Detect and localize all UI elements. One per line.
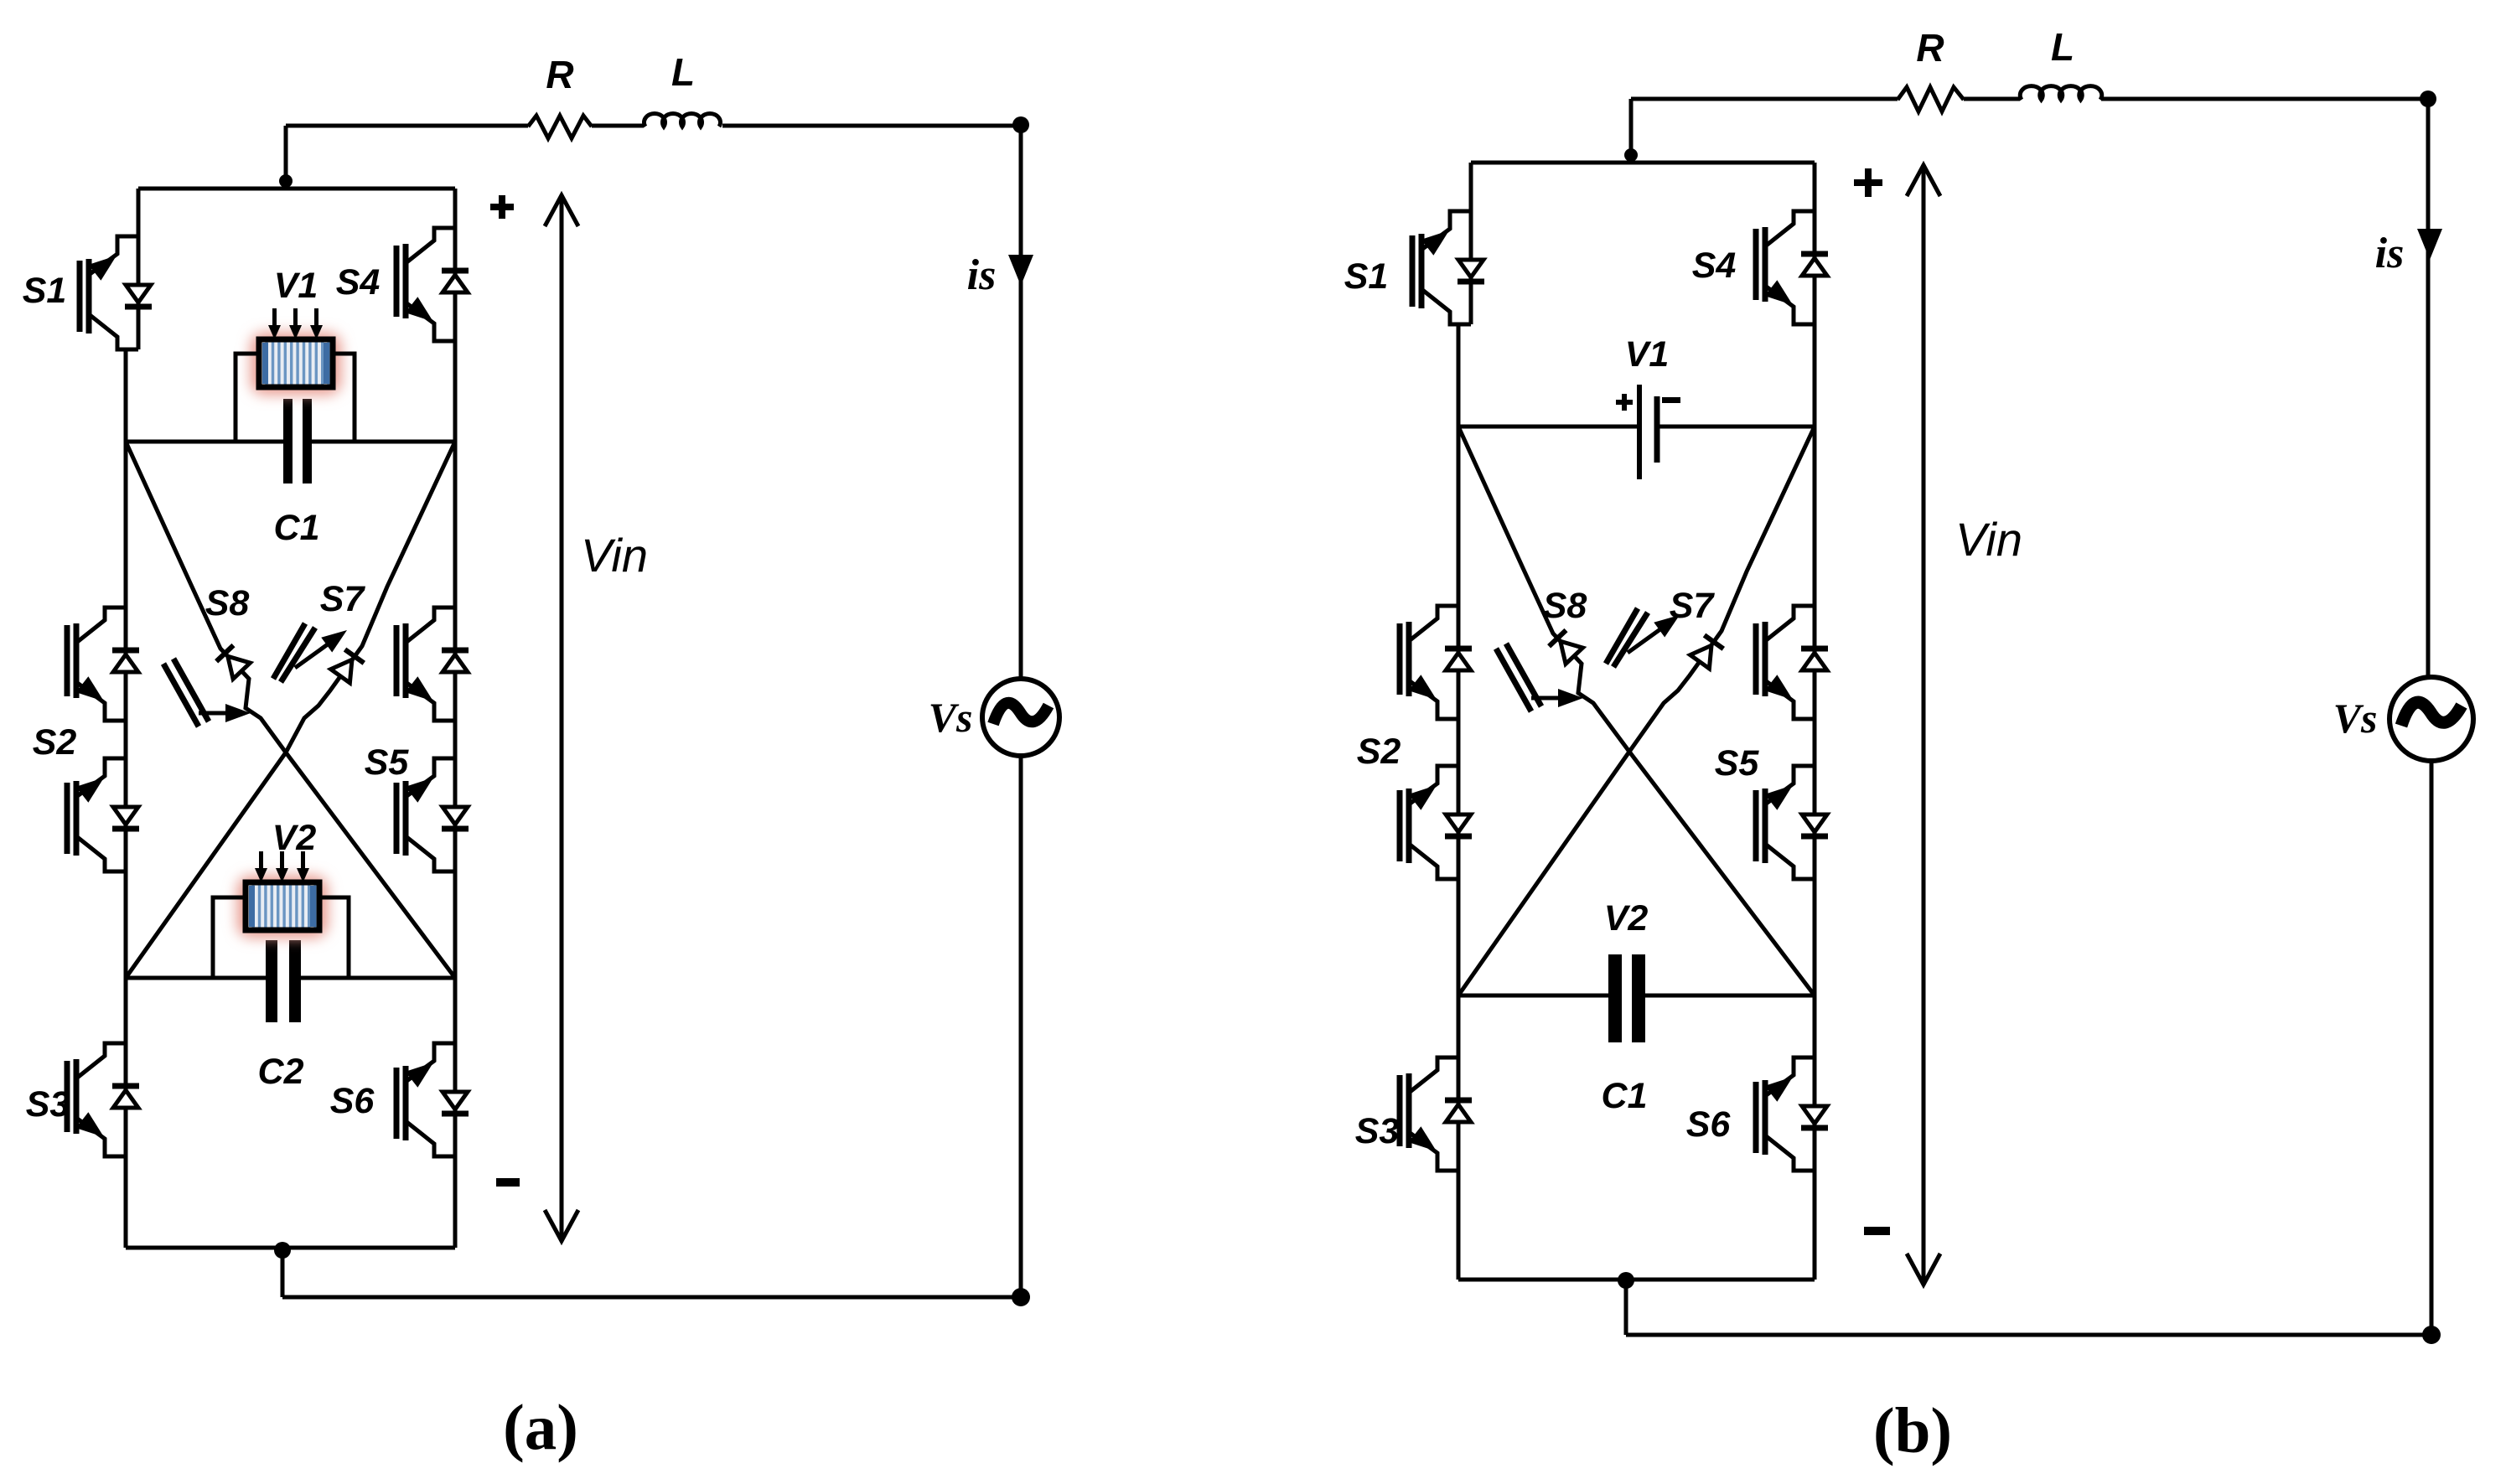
wire: mid rail right of V1 <box>1657 425 1815 429</box>
svg-text:S7: S7 <box>1670 586 1716 626</box>
arrow: Vin measurement <box>560 194 564 1242</box>
transistor S4 <box>1756 211 1828 324</box>
wire: top output wire right segment <box>2101 97 2428 101</box>
wire: left rail above S2 <box>1457 427 1461 606</box>
svg-text:V1: V1 <box>274 266 318 306</box>
wire: right rail above S5 <box>1813 324 1817 606</box>
arrow: load current is <box>2417 229 2442 260</box>
label minus <box>496 1178 520 1187</box>
wire: left rail above S1 <box>1469 163 1473 211</box>
svg-text:S3: S3 <box>1355 1111 1400 1151</box>
capacitor C2 <box>266 940 277 1022</box>
wire: lower mid rail right of C1 <box>1643 994 1815 998</box>
wire: right rail below S5 <box>1813 879 1817 1057</box>
svg-text:S8: S8 <box>1543 586 1587 626</box>
transistor S2 upper <box>1400 606 1472 719</box>
wire: top riser from bridge to output line <box>1629 99 1634 163</box>
svg-text:S3: S3 <box>26 1084 70 1125</box>
wire: top riser from bridge to output line <box>284 126 288 189</box>
wire: bridge bottom rail <box>126 1246 455 1250</box>
node: bottom right corner node <box>2422 1326 2441 1344</box>
svg-text:S4: S4 <box>336 262 381 302</box>
PV source V1 <box>251 308 341 395</box>
transistor S3 <box>1400 1057 1472 1171</box>
wire: bottom return wire <box>1626 1333 2431 1337</box>
svg-text:R: R <box>546 53 573 96</box>
wire: S5 middle link <box>453 721 458 758</box>
svg-text:Vs: Vs <box>2333 695 2378 742</box>
wire: S2 middle link <box>1457 719 1461 766</box>
wire: right rail below S5 <box>453 871 458 1043</box>
svg-text:S7: S7 <box>320 579 366 619</box>
transistor S2 lower <box>67 758 139 871</box>
svg-text:S4: S4 <box>1692 246 1737 286</box>
PV source V2 <box>237 851 328 938</box>
battery V1 <box>1637 385 1642 479</box>
gate of S7 <box>273 623 315 682</box>
transistor S5 upper <box>1756 606 1828 719</box>
wire: right rail above S4 <box>1813 163 1817 211</box>
arrow: S8 gate emitter <box>1531 696 1567 701</box>
inductor L <box>2020 86 2102 100</box>
label battery minus <box>1662 397 1680 403</box>
label plus <box>1854 179 1882 186</box>
svg-text:S2: S2 <box>33 722 77 763</box>
diode of S7 <box>331 649 365 683</box>
wire: mid rail right of C1 <box>312 440 455 444</box>
diode of S8 <box>1549 630 1582 664</box>
wire: S5 middle link <box>1813 719 1817 766</box>
transistor S5 lower <box>1756 766 1828 879</box>
wire: diagonal with S8 <box>126 442 455 978</box>
node: bridge top output node <box>279 174 293 188</box>
svg-text:C1: C1 <box>274 508 320 548</box>
inductor L <box>645 114 721 127</box>
transistor S2 upper <box>67 608 139 721</box>
wire: bottom stub to bridge <box>1624 1280 1628 1335</box>
arrow: load current is <box>1008 255 1033 286</box>
wire: mid rail left of V1 <box>1458 425 1637 429</box>
svg-text:S8: S8 <box>205 583 250 623</box>
wire: between R and L <box>1964 97 2020 101</box>
svg-text:S1: S1 <box>1344 256 1389 297</box>
wire: lower mid rail right of C2 <box>298 976 455 980</box>
transistor S6 <box>396 1043 469 1156</box>
transistor S6 <box>1756 1057 1828 1171</box>
svg-text:S6: S6 <box>330 1081 375 1121</box>
wire: right rail above S6 <box>453 871 458 1043</box>
svg-text:(b): (b) <box>1873 1394 1952 1466</box>
svg-text:V1: V1 <box>1625 334 1670 375</box>
node: top right corner node <box>1012 116 1029 133</box>
arrow: Vin measurement <box>1922 164 1926 1285</box>
svg-text:S1: S1 <box>23 271 67 311</box>
label battery plus <box>1616 400 1633 405</box>
wire: left rail above S2 <box>124 442 128 608</box>
capacitor C1 <box>1608 954 1622 1042</box>
node: bridge top output node <box>1624 148 1638 162</box>
wire: right rail above S4 <box>453 189 458 228</box>
wire: left rail S1 to mid rail <box>124 349 128 442</box>
transistor S5 upper <box>396 608 469 721</box>
transistor S1 <box>80 236 152 349</box>
svg-text:V2: V2 <box>272 818 317 858</box>
resistor R <box>528 116 592 138</box>
wire: left rail below S3 <box>124 1156 128 1248</box>
AC source Vs <box>982 679 1059 756</box>
wire: right rail below S6 <box>1813 1171 1817 1280</box>
wire: V1 bracket <box>236 354 355 442</box>
transistor S1 <box>1412 211 1484 324</box>
svg-text:is: is <box>2375 230 2405 277</box>
arrow: S7 gate emitter <box>295 638 337 668</box>
transistor S4 <box>396 228 469 341</box>
arrow: S8 gate emitter <box>199 711 235 716</box>
svg-text:(a): (a) <box>503 1391 578 1463</box>
wire: top output wire left segment <box>1631 97 1898 101</box>
wire: left rail above S1 <box>137 189 141 236</box>
wire: bottom return wire <box>282 1295 1021 1300</box>
svg-text:R: R <box>1916 26 1944 70</box>
wire: between R and L <box>592 124 644 128</box>
wire: right rail below S6 <box>453 1156 458 1248</box>
wire: diagonal with S8 <box>1458 427 1815 995</box>
wire: bridge top rail <box>1471 161 1815 165</box>
wire: left rail below S3 <box>1457 1171 1461 1280</box>
label plus <box>490 204 514 210</box>
svg-text:S6: S6 <box>1686 1104 1732 1145</box>
wire: top output wire right segment <box>722 124 1021 128</box>
svg-text:Vin: Vin <box>581 529 648 582</box>
wire: left rail S1 to mid rail <box>1457 324 1461 427</box>
diode of S7 <box>1691 635 1724 669</box>
wire: right vertical wire to source <box>1019 125 1023 679</box>
wire: left rail below S2 <box>1457 879 1461 1057</box>
capacitor C1 <box>283 399 293 483</box>
wire: bridge bottom rail <box>1458 1278 1815 1282</box>
node: top right corner node <box>2420 90 2436 107</box>
arrow: S7 gate emitter <box>1628 623 1670 653</box>
wire: diagonal with S7 <box>1458 427 1815 995</box>
svg-text:C2: C2 <box>258 1052 304 1092</box>
AC source Vs <box>2390 677 2473 761</box>
svg-text:L: L <box>2051 25 2074 69</box>
diode of S8 <box>216 645 250 679</box>
wire: right rail above S6 <box>1813 995 1817 1057</box>
wire: below source down to bottom corner <box>1019 756 1023 1297</box>
wire: right rail S4 to mid rail <box>1813 324 1817 427</box>
wire: lower mid rail left of C2 <box>126 976 266 980</box>
wire: right vertical wire to source <box>2426 99 2431 677</box>
node: bridge bottom node <box>1618 1272 1634 1289</box>
wire: right rail above S5 <box>453 341 458 608</box>
svg-text:C1: C1 <box>1602 1076 1648 1116</box>
resistor R <box>1898 87 1964 111</box>
wire: left rail above S3 <box>1457 995 1461 1057</box>
label minus <box>1864 1227 1890 1235</box>
wire: left rail above S3 <box>124 871 128 1043</box>
transistor S2 lower <box>1400 766 1472 879</box>
wire: lower mid rail left of C1 <box>1458 994 1609 998</box>
gate of S8 <box>1496 644 1541 711</box>
wire: diagonal with S7 <box>126 442 455 978</box>
wire: below source down to bottom corner <box>2430 761 2434 1335</box>
wire: mid rail left of C1 <box>126 440 283 444</box>
wire: bridge top rail <box>138 187 455 191</box>
transistor S3 <box>67 1043 139 1156</box>
svg-text:is: is <box>967 251 997 299</box>
wire: V2 bracket <box>213 897 349 978</box>
wire: left rail below S2 <box>124 871 128 1043</box>
svg-text:V2: V2 <box>1604 898 1649 938</box>
svg-text:S5: S5 <box>365 742 410 783</box>
gate of S7 <box>1606 608 1648 667</box>
node: bottom right corner node <box>1012 1288 1030 1306</box>
gate of S8 <box>163 659 209 726</box>
wire: right rail S4 to mid rail <box>453 341 458 442</box>
svg-text:Vs: Vs <box>929 694 973 741</box>
wire: S2 middle link <box>124 721 128 758</box>
transistor S5 lower <box>396 758 469 871</box>
wire: top output wire left segment <box>286 124 528 128</box>
svg-text:L: L <box>671 50 695 94</box>
wire: bottom stub to bridge <box>281 1248 285 1297</box>
node: bridge bottom node <box>274 1242 291 1259</box>
svg-text:S5: S5 <box>1715 743 1760 783</box>
svg-text:Vin: Vin <box>1955 513 2022 566</box>
svg-text:S2: S2 <box>1357 732 1401 772</box>
